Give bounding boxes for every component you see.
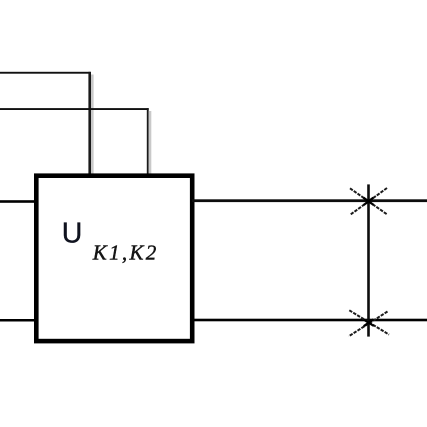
wire right middle (from box) (192, 199, 427, 202)
wire vertical link between break symbols (367, 184, 370, 336)
wire left bottom (to box) (0, 319, 36, 322)
breaking-contact symbol X bottom (349, 310, 389, 336)
wire top-left horizontal (upper feed) (0, 72, 91, 74)
svg-text:K1,K2: K1,K2 (92, 240, 159, 264)
breaking-contact symbol X bottom center core (364, 319, 374, 326)
wire right bottom (from box) (192, 319, 427, 322)
breaking-contact symbol X top center core (364, 198, 374, 205)
svg-text:U: U (62, 217, 83, 249)
wire vertical drop 1 (88, 72, 91, 177)
wire vertical drop 2 (147, 108, 149, 176)
relay coil box U K1,K2 (36, 176, 192, 341)
wire left horizontal (second feed) (0, 108, 149, 110)
wire left middle (to box) (0, 200, 36, 203)
breaking-contact symbol X top (350, 188, 388, 215)
